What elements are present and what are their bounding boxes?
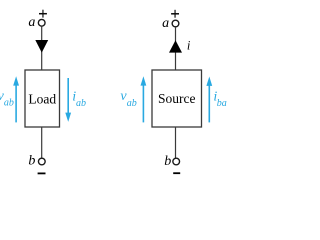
voltage reference arrow v_ab (right, up): [141, 76, 147, 122]
node b terminal circle (left): [38, 158, 45, 165]
svg-text:ba: ba: [217, 98, 227, 109]
node a (left) plus polarity mark: [39, 10, 47, 18]
current direction arrowhead (down) on left wire: [35, 40, 48, 53]
wire from terminal a to load box (left): [41, 26, 43, 70]
svg-text:Source: Source: [158, 91, 196, 106]
wire from terminal a to source box (right): [175, 27, 177, 70]
svg-text:a: a: [28, 15, 35, 30]
svg-text:b: b: [164, 154, 171, 169]
svg-text:ab: ab: [127, 98, 137, 109]
label v_ab (right): [120, 89, 136, 109]
wire from source box to terminal b (right): [175, 127, 177, 158]
wire from load box to terminal b (left): [41, 127, 43, 158]
current reference arrow i_ba (right, up): [206, 77, 212, 123]
label i_ba (right): [213, 89, 226, 109]
svg-text:b: b: [28, 154, 35, 169]
node b terminal circle (right): [173, 158, 180, 165]
node a terminal circle (right): [172, 20, 179, 27]
node a terminal circle (left): [38, 19, 45, 26]
current direction arrowhead (up) on right wire: [169, 40, 182, 52]
label v_ab (left): [0, 89, 14, 109]
minus polarity mark (left): [38, 172, 46, 174]
label i_ab (left): [72, 89, 86, 109]
Source box: [152, 70, 202, 127]
voltage reference arrow v_ab (left, up): [13, 76, 19, 122]
svg-text:ab: ab: [76, 98, 86, 109]
current reference arrow i_ab (left, down): [65, 78, 71, 122]
node a (right) plus polarity mark: [171, 10, 179, 18]
Load box: [25, 70, 60, 127]
svg-text:ab: ab: [4, 98, 14, 109]
minus polarity mark (right): [173, 172, 180, 174]
svg-text:a: a: [162, 16, 169, 31]
svg-text:i: i: [187, 38, 191, 52]
svg-text:Load: Load: [28, 92, 56, 107]
